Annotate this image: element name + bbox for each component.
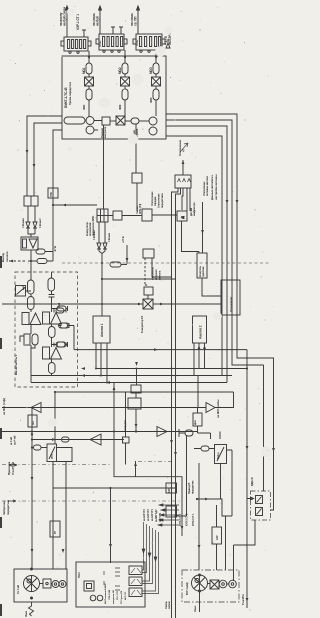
diode D3 — [97, 243, 101, 249]
dashed output arrow — [9, 260, 25, 262]
svg-text:МО1: МО1 — [82, 67, 86, 74]
meter circle M1 — [86, 117, 94, 125]
output bus 3 — [31, 382, 227, 384]
motor symbol 2 — [192, 574, 208, 612]
left col down wires — [53, 488, 66, 569]
probe wire — [198, 376, 206, 408]
wire — [152, 214, 177, 216]
svg-text:ФЭ: ФЭ — [32, 421, 35, 425]
arrowhead out — [9, 260, 13, 263]
mid dots — [101, 262, 103, 305]
amp IF left — [90, 434, 101, 445]
op-amp A2 — [43, 312, 62, 324]
wire T2 up — [99, 6, 102, 34]
svg-text:на АЗУ СТ3: на АЗУ СТ3 — [143, 509, 146, 521]
feedback resistor — [60, 323, 74, 350]
dashed section line d3 — [2, 500, 180, 502]
fuse F1 — [131, 118, 139, 124]
wire antenna feed T1 up — [66, 6, 69, 37]
splitter box DP — [24, 196, 38, 206]
mixer feed box — [143, 249, 154, 258]
svg-text:АПЧ (ЗЧ): АПЧ (ЗЧ) — [139, 204, 142, 214]
svg-text:передатчика: передатчика — [161, 193, 164, 208]
divider pair oval — [32, 334, 38, 345]
svg-text:4 В мест: 4 В мест — [38, 217, 42, 228]
rail R1 — [166, 114, 274, 510]
arrowhead B2 — [124, 56, 127, 60]
svg-text:на АЗУ СТ2: на АЗУ СТ2 — [147, 509, 150, 521]
svg-text:Vвых: Vвых — [194, 605, 197, 612]
U feedback loop — [57, 448, 73, 462]
bus wire — [139, 120, 149, 122]
u in wire — [41, 447, 47, 449]
supply rail -27V — [52, 188, 54, 261]
resistor Rv2 — [28, 297, 35, 310]
wire — [51, 359, 53, 363]
lamp R1 — [219, 580, 227, 588]
commutator box ZM91 — [97, 209, 108, 222]
dashed enclosure — [15, 272, 78, 387]
gm3 sub box 2 — [129, 577, 142, 586]
resistor on dashed row — [110, 262, 121, 267]
svg-text:Прием. передатчик: Прием. передатчик — [68, 81, 72, 105]
transformer T3 — [133, 34, 165, 52]
feedback oval F2 — [59, 323, 70, 328]
mixer X2 — [121, 77, 130, 86]
input wire — [30, 269, 32, 280]
margin mark 1 — [0, 256, 2, 268]
ground stub T2b — [119, 27, 123, 34]
unit box GA — [14, 569, 67, 602]
svg-text:св. ПЛ: св. ПЛ — [134, 16, 138, 26]
analysis box 2 — [193, 316, 207, 343]
U outputs down — [53, 462, 66, 489]
svg-text:АЗУ: АЗУ — [216, 535, 219, 540]
resistor wire — [177, 429, 187, 516]
diode D2 — [33, 222, 37, 228]
wire pair down from commutator — [99, 222, 105, 243]
arrowhead bypass — [113, 386, 184, 530]
margin mark 5 — [0, 604, 2, 616]
bdm to vsu jog — [234, 520, 256, 555]
svg-text:УПЧ: УПЧ — [51, 454, 54, 459]
svg-text:чувствит.: чувствит. — [202, 266, 205, 277]
het box small — [131, 385, 141, 393]
svg-text:ВМКТ-2-ТС-45: ВМКТ-2-ТС-45 — [64, 87, 68, 108]
inner square sym — [84, 581, 94, 591]
wire — [147, 295, 149, 299]
prived wire — [198, 463, 200, 552]
wire to -27V rail — [31, 252, 53, 262]
limiter box — [177, 211, 187, 221]
wire pair down — [28, 206, 35, 222]
diode D4 — [103, 243, 107, 249]
arrowhead drop — [109, 544, 112, 548]
bus wire — [110, 120, 116, 122]
svg-text:Анализ 2: Анализ 2 — [199, 325, 203, 339]
gm3 sub box 1 — [129, 566, 142, 575]
junction P — [113, 431, 115, 433]
svg-text:Р на МГА: Р на МГА — [241, 594, 245, 605]
heterodyne box — [128, 398, 141, 409]
arrowhead mix line — [154, 348, 158, 351]
arrowhead L2 — [33, 164, 36, 168]
monitor box DU — [132, 173, 142, 183]
trimmer box — [16, 286, 26, 297]
generator G2 wire — [136, 369, 138, 386]
filter ZM1 — [86, 89, 92, 100]
feed wire — [126, 245, 128, 264]
svg-text:ГМ-3: ГМ-3 — [77, 572, 81, 578]
rail R2 — [166, 120, 264, 491]
bdm inner sq 2 — [256, 508, 263, 516]
branch to mixer feed — [102, 278, 176, 280]
svg-text:ш 4 мб: ш 4 мб — [9, 437, 13, 445]
bus capsule left — [64, 117, 85, 124]
svg-text:Vвых: Vвых — [25, 610, 28, 617]
svg-text:ТПП-2: ТПП-2 — [137, 39, 139, 46]
margin mark 4 — [0, 517, 2, 528]
arrowheads analysis2 — [198, 345, 206, 349]
line C2 — [32, 439, 124, 441]
mixer X5 — [143, 299, 153, 309]
rail L2 — [34, 123, 62, 196]
section arrow d1 — [9, 464, 17, 466]
fe box — [28, 415, 37, 427]
resistor Rc3 — [49, 363, 56, 374]
mixer X4 — [116, 116, 125, 125]
inner link — [40, 583, 60, 586]
svg-text:КУП-3 СТ 3: КУП-3 СТ 3 — [179, 513, 182, 526]
wire limiter to control — [182, 221, 200, 253]
wire trimmer — [26, 290, 32, 292]
gm3 box — [76, 562, 145, 607]
op-amp A1 — [22, 313, 41, 325]
arrowhead L1 — [26, 150, 29, 154]
crossed sq small — [210, 580, 219, 589]
APC box — [142, 209, 152, 221]
meter circle M2 — [86, 126, 94, 134]
svg-text:антенны автомат.: антенны автомат. — [206, 175, 209, 196]
output bus 1 — [96, 368, 247, 370]
arrowhead ACH — [182, 160, 185, 164]
svg-text:шифратора: шифратора — [193, 202, 196, 216]
ACH bottom leads — [172, 188, 191, 618]
wire bus fuse to DU box — [135, 124, 137, 173]
svg-text:Опережение: Опережение — [178, 139, 182, 156]
unit box — [62, 56, 166, 139]
rcha out wire — [222, 450, 232, 516]
margin mark 2 — [0, 338, 2, 349]
svg-text:сигнала: сигнала — [5, 251, 9, 262]
svg-text:ЗМ1: ЗМ1 — [82, 104, 86, 110]
wire — [51, 374, 53, 376]
svg-text:Генератор Г2: Генератор Г2 — [140, 315, 144, 333]
oval on C2 — [62, 437, 70, 442]
output bus 2 — [31, 375, 232, 377]
capacitor Cc1 — [49, 291, 55, 312]
resistor Rc1 — [48, 278, 55, 291]
ground stub T2a — [111, 27, 115, 34]
gm3 terminal ticks — [104, 568, 120, 590]
svg-text:ПЧ-АРУ мб: ПЧ-АРУ мб — [11, 461, 15, 475]
resistor out — [185, 430, 193, 436]
merge wires — [28, 228, 35, 237]
svg-text:ЗМ2: ЗМ2 — [118, 104, 122, 110]
divider pair box — [24, 334, 30, 345]
arrowhead out mixer — [160, 303, 164, 306]
branch wire B3 — [155, 50, 157, 116]
entry wires vsu — [199, 552, 234, 581]
feedback oval F1 — [52, 306, 68, 311]
vert from line A to U box — [54, 392, 56, 444]
oval u in — [34, 445, 42, 450]
resistor R-out — [37, 259, 47, 264]
bus wire — [125, 120, 131, 122]
svg-text:ТПП-2: ТПП-2 — [100, 40, 102, 47]
gen rail down — [246, 350, 248, 608]
fnch box — [193, 413, 202, 426]
mixer X3 — [152, 77, 161, 86]
fe column vertical — [31, 408, 33, 570]
svg-text:аш 4 мб: аш 4 мб — [13, 435, 17, 445]
svg-text:выпрямит. 4В: выпрямит. 4В — [112, 590, 115, 604]
low bus drop — [110, 488, 112, 563]
motor symbol — [24, 568, 40, 599]
arrowhead C2 — [52, 438, 56, 441]
lamp pair — [90, 595, 103, 601]
svg-text:СТВ-3 24В: СТВ-3 24В — [108, 589, 111, 600]
arrowhead into mixer — [138, 303, 142, 306]
ru box — [50, 521, 60, 537]
rcha box — [215, 445, 227, 464]
mixer output line to gen — [74, 349, 247, 351]
wire right leg — [152, 258, 172, 618]
svg-text:МО3: МО3 — [149, 67, 153, 74]
antenna tuner box ACH — [175, 175, 191, 188]
svg-text:передатчик: передатчик — [6, 499, 10, 515]
buffer box — [144, 287, 153, 295]
ground stub T1 — [82, 30, 86, 37]
arrowheads gen rail — [246, 446, 275, 602]
svg-text:на АВУ АДУ: на АВУ АДУ — [155, 509, 158, 522]
svg-text:на УНЧ (тлф): на УНЧ (тлф) — [2, 398, 6, 415]
svg-text:диапазонов ЗМ91: диапазонов ЗМ91 — [92, 215, 95, 236]
amp right probe — [206, 403, 215, 413]
rail L3 — [53, 130, 62, 188]
wire bus relay to commutator — [103, 125, 105, 209]
het wire — [135, 393, 137, 398]
svg-text:на ЗКЛ пробы: на ЗКЛ пробы — [216, 399, 220, 418]
arrowhead call — [201, 230, 204, 234]
svg-text:сигнал: сигнал — [168, 601, 171, 609]
+27V tap symbol — [166, 39, 170, 48]
relay square — [43, 579, 51, 588]
choke MO3 — [153, 63, 159, 74]
diode D1 — [26, 222, 30, 228]
svg-text:на буй: на буй — [96, 16, 100, 26]
svg-text:МО2: МО2 — [118, 67, 122, 74]
detector amp U1 — [21, 237, 38, 250]
arrowhead gen feed — [135, 362, 177, 456]
lamp L2 — [59, 581, 66, 588]
lamp R2 — [229, 580, 237, 588]
svg-text:ВСУ 4 мбф: ВСУ 4 мбф — [186, 582, 189, 595]
azu box left lower — [166, 506, 177, 517]
control sensitivity box — [197, 253, 207, 278]
amplifier unit box — [221, 280, 240, 315]
transformer T2 — [96, 34, 127, 52]
meter circle M3 — [149, 117, 157, 125]
gm3 sub box 3 — [129, 588, 142, 597]
wire tap to commutator — [53, 204, 97, 206]
svg-text:АЗУ: АЗУ — [168, 488, 171, 493]
section dashed divider — [62, 262, 270, 264]
rail R4 — [166, 136, 222, 376]
mixer X1 — [85, 77, 94, 86]
relay feed vertical — [125, 392, 127, 465]
audio line B — [2, 392, 234, 408]
analysis1 outputs — [96, 343, 107, 383]
svg-text:контроля: контроля — [104, 126, 107, 138]
wire DU down — [136, 183, 138, 211]
analysis2 outputs — [194, 343, 205, 376]
antenna squiggle — [29, 602, 34, 616]
vsu dashdot box — [182, 570, 239, 602]
wire down — [30, 250, 32, 269]
node output — [28, 260, 31, 262]
svg-text:Анализ 1: Анализ 1 — [100, 323, 104, 337]
arrowhead rails — [226, 200, 239, 204]
arrowhead tap — [62, 204, 66, 207]
svg-text:КУП-3 СТ 2: КУП-3 СТ 2 — [186, 513, 189, 526]
svg-text:КУП-3 СТ 1: КУП-3 СТ 1 — [192, 513, 195, 526]
svg-text:ПТФ: ПТФ — [50, 192, 53, 197]
resistor Rv1 — [28, 280, 35, 294]
svg-text:передатчик: передатчик — [192, 480, 195, 494]
oval rcha in — [201, 446, 209, 451]
svg-text:ЩИТ питания В 4БМ: ЩИТ питания В 4БМ — [104, 583, 107, 604]
svg-text:+27 В: +27 В — [121, 236, 125, 243]
relay box on C2 — [123, 437, 130, 443]
resistor horizontal — [36, 249, 45, 254]
amp out left — [31, 403, 41, 413]
dashed section line d1 — [2, 462, 174, 465]
svg-text:РчА-у: РчА-у — [217, 452, 220, 459]
sync bundle verticals — [142, 522, 159, 594]
svg-text:КЭР-1 СТ 1: КЭР-1 СТ 1 — [76, 14, 80, 30]
svg-text:на АЗУ СТ1: на АЗУ СТ1 — [151, 509, 154, 521]
svg-text:Гетеродин: Гетеродин — [124, 419, 127, 432]
svg-text:ПУ-2 реле РВ: ПУ-2 реле РВ — [121, 590, 123, 604]
relay box K1 — [102, 117, 110, 125]
svg-text:Вычислитель 1: Вычислитель 1 — [14, 354, 18, 375]
kup bracket wires — [158, 493, 179, 526]
long audio line — [2, 303, 221, 305]
wire — [121, 264, 127, 266]
low bus — [53, 487, 176, 489]
control wires — [202, 278, 221, 296]
agc line — [55, 391, 234, 393]
wire — [108, 215, 142, 217]
rcha wires — [194, 432, 221, 500]
wire — [30, 325, 32, 335]
svg-text:фнч: фнч — [194, 420, 197, 425]
amp mid C1 — [157, 427, 167, 437]
choke MO2 — [122, 63, 128, 74]
wire down mid — [101, 254, 103, 317]
svg-text:сигнала: сигнала — [159, 270, 162, 280]
feedback oval F3 — [52, 342, 68, 347]
U attenuator box — [47, 444, 57, 462]
analysis box 1 — [93, 316, 110, 343]
bdm inner sq 1 — [256, 496, 263, 504]
arrowhead down feed — [126, 258, 129, 262]
box PTF — [48, 188, 58, 198]
svg-text:ЗМ3: ЗМ3 — [149, 97, 153, 103]
meter circle M4 — [149, 127, 157, 135]
wire — [51, 324, 53, 327]
azu box right — [212, 527, 222, 544]
svg-text:-27 В: -27 В — [53, 246, 57, 252]
filter ZM3 — [153, 89, 159, 100]
fnch wires — [198, 408, 211, 440]
wire left leg — [145, 258, 148, 285]
margin mark 3 — [0, 428, 2, 439]
wire ACH up arrow — [182, 160, 184, 175]
wire — [30, 294, 32, 312]
choke MO1 — [86, 63, 92, 74]
svg-text:АДУ СТ1: АДУ СТ1 — [159, 512, 162, 522]
resistor Rc2 — [49, 327, 56, 338]
coupling capacitor — [54, 304, 66, 313]
svg-text:Приёмник: Приёмник — [7, 461, 11, 475]
arrowhead B1 — [88, 56, 91, 60]
net call-automatics — [202, 202, 204, 253]
if line C — [2, 431, 198, 433]
lower coupling cap — [54, 342, 67, 347]
arrow operezhenie — [180, 143, 188, 152]
svg-text:настройки антенны: настройки антенны — [214, 174, 218, 200]
divider links — [20, 336, 35, 383]
svg-text:4 В макс: 4 В макс — [21, 217, 25, 228]
bus wire c1-c2 — [94, 121, 102, 131]
svg-text:ГА 4 мб: ГА 4 мб — [16, 585, 20, 594]
op-amp A3 — [43, 347, 62, 359]
arrowheads fe col — [31, 434, 65, 554]
svg-text:ПУ-1 СТ2: ПУ-1 СТ2 — [117, 590, 119, 600]
svg-text:ВДМ-43: ВДМ-43 — [251, 477, 254, 486]
azu box left — [166, 483, 177, 493]
rail L1 — [27, 116, 62, 196]
col2 top wire — [51, 272, 53, 278]
svg-text:Усилители: Усилители — [229, 297, 233, 312]
lamp L1 — [52, 581, 59, 588]
het out — [135, 409, 137, 432]
svg-text:АРУ СТ1: АРУ СТ1 — [124, 591, 127, 600]
filter ZM2 — [122, 89, 128, 100]
rail R3 — [166, 126, 227, 383]
branch wire B2 — [124, 50, 126, 116]
svg-text:4 В мин: 4 В мин — [107, 232, 111, 242]
section arrow d3 — [8, 500, 16, 502]
arrowhead B3 — [155, 56, 158, 60]
branch wire B1 — [88, 51, 90, 117]
azu feed — [197, 499, 226, 570]
wire T3 up — [137, 6, 140, 34]
transformer T1 — [61, 37, 91, 53]
inner links — [208, 583, 229, 586]
